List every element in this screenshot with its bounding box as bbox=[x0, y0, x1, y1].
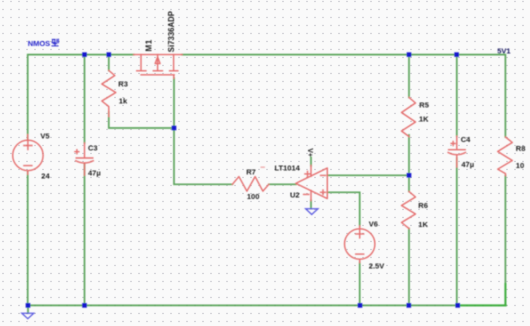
svg-text:U2: U2 bbox=[290, 190, 300, 199]
svg-text:R6: R6 bbox=[418, 201, 428, 210]
svg-text:1K: 1K bbox=[418, 220, 428, 229]
svg-text:Si7336ADP: Si7336ADP bbox=[167, 11, 176, 52]
svg-text:47µ: 47µ bbox=[88, 168, 101, 177]
svg-text:100: 100 bbox=[247, 192, 260, 201]
svg-text:LT1014: LT1014 bbox=[275, 164, 301, 173]
svg-text:R7: R7 bbox=[246, 167, 256, 176]
svg-text:R5: R5 bbox=[419, 101, 429, 110]
svg-text:V+: V+ bbox=[306, 148, 313, 157]
svg-text:R3: R3 bbox=[118, 79, 128, 88]
svg-text:5V1: 5V1 bbox=[497, 46, 510, 55]
svg-text:V6: V6 bbox=[369, 220, 378, 229]
svg-text:C4: C4 bbox=[461, 135, 471, 144]
svg-text:24: 24 bbox=[41, 171, 50, 180]
svg-text:V5: V5 bbox=[40, 132, 49, 141]
svg-text:1k: 1k bbox=[119, 96, 128, 105]
svg-text:10: 10 bbox=[516, 161, 524, 170]
svg-text:C3: C3 bbox=[88, 144, 98, 153]
svg-text:NMOS: NMOS bbox=[28, 39, 51, 48]
svg-text:R8: R8 bbox=[516, 144, 526, 153]
svg-text:1K: 1K bbox=[419, 115, 429, 124]
svg-text:47µ: 47µ bbox=[461, 160, 474, 169]
svg-text:M1: M1 bbox=[144, 39, 153, 51]
svg-text:2.5V: 2.5V bbox=[369, 262, 384, 271]
